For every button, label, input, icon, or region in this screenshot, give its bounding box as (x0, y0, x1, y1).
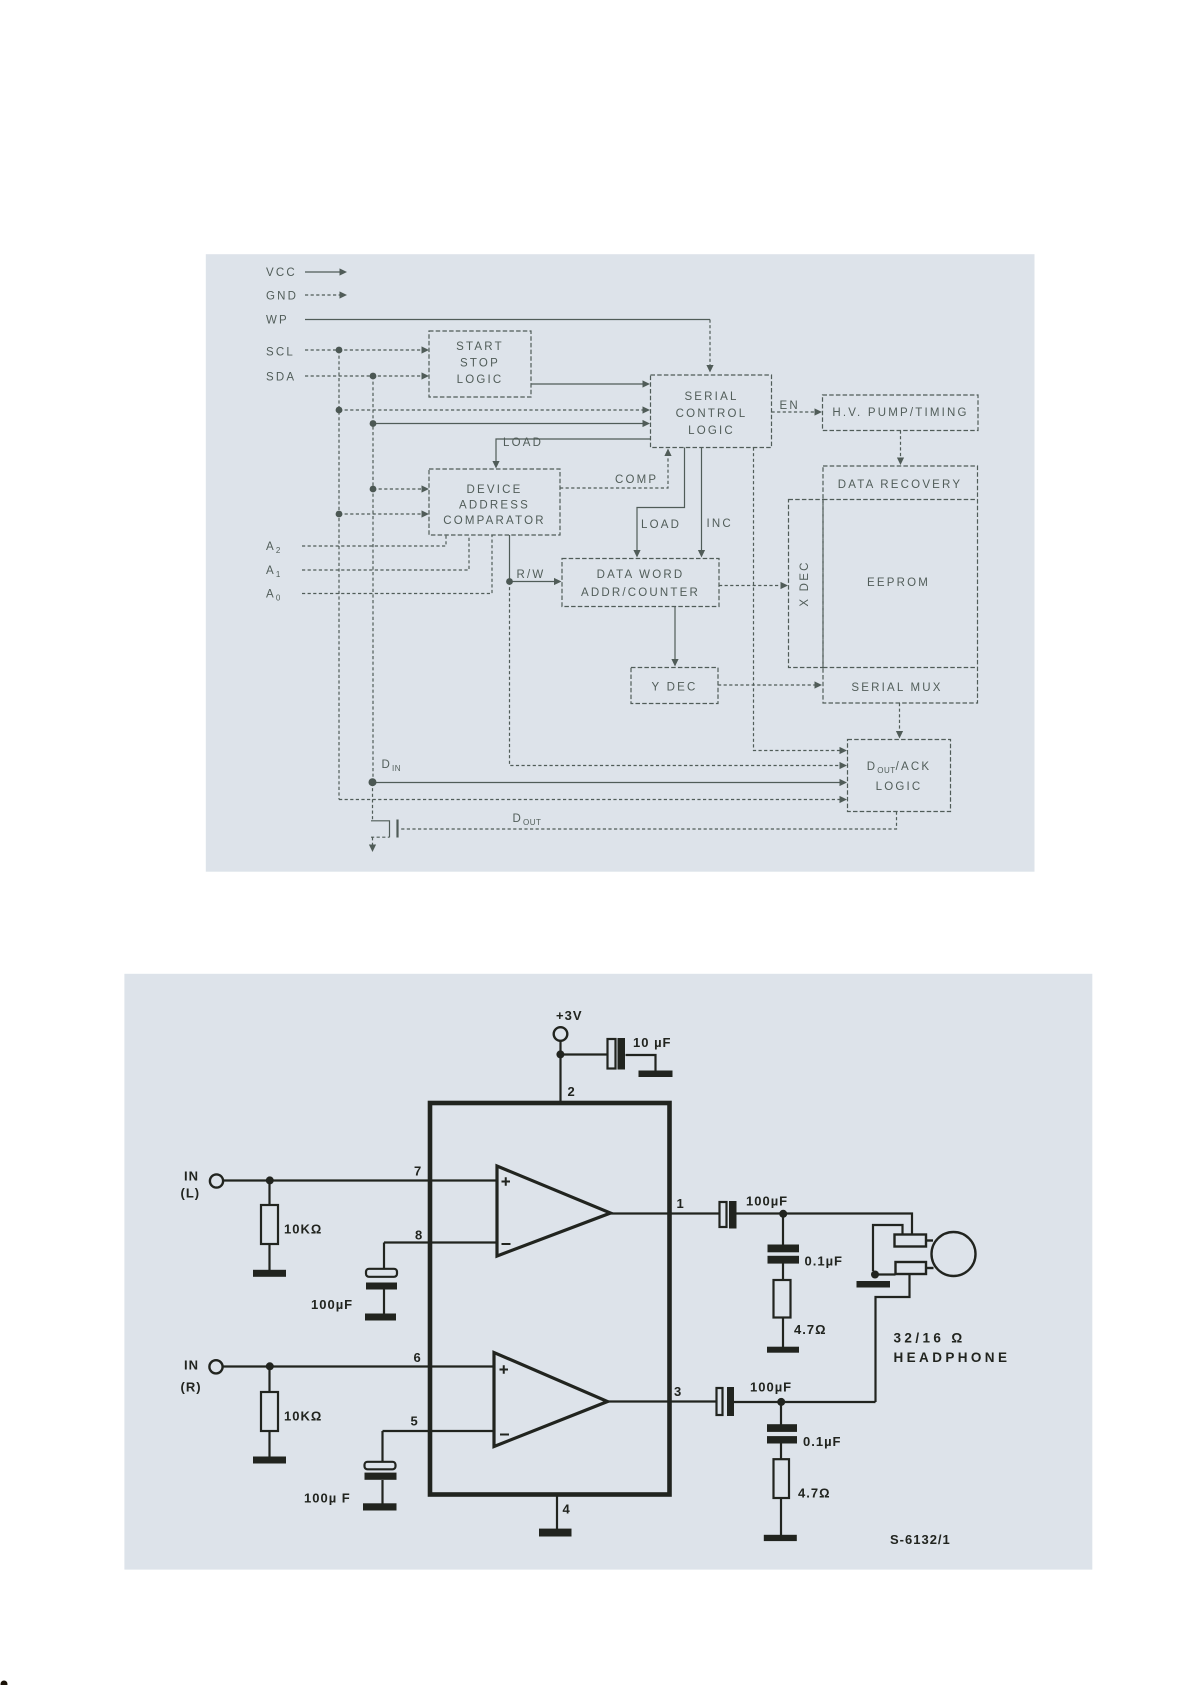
svg-text:10KΩ: 10KΩ (284, 1409, 322, 1424)
svg-text:H.V. PUMP/TIMING: H.V. PUMP/TIMING (832, 407, 968, 419)
svg-text:4.7Ω: 4.7Ω (798, 1486, 831, 1501)
svg-text:GND: GND (266, 291, 298, 303)
svg-text:32/16 Ω: 32/16 Ω (894, 1331, 966, 1346)
svg-text:(L): (L) (181, 1186, 201, 1201)
svg-text:EN: EN (780, 400, 800, 412)
svg-text:7: 7 (414, 1164, 422, 1179)
svg-text:5: 5 (411, 1414, 419, 1429)
svg-text:3: 3 (674, 1384, 682, 1399)
svg-text:Y DEC: Y DEC (652, 682, 698, 694)
svg-text:0.1µF: 0.1µF (805, 1254, 844, 1269)
svg-text:DOUT/ACK: DOUT/ACK (867, 761, 932, 775)
svg-text:EEPROM: EEPROM (867, 577, 930, 589)
svg-text:LOAD: LOAD (641, 519, 681, 531)
svg-text:4.7Ω: 4.7Ω (794, 1322, 827, 1337)
svg-text:10KΩ: 10KΩ (284, 1222, 322, 1237)
svg-text:LOGIC: LOGIC (457, 374, 504, 386)
svg-text:100µF: 100µF (750, 1380, 792, 1395)
svg-text:DATA WORD: DATA WORD (597, 569, 685, 581)
svg-text:HEADPHONE: HEADPHONE (894, 1350, 1011, 1365)
svg-text:COMPARATOR: COMPARATOR (443, 515, 546, 527)
svg-text:X DEC: X DEC (799, 560, 811, 606)
svg-text:LOAD: LOAD (503, 437, 543, 449)
svg-text:IN: IN (184, 1169, 199, 1184)
svg-text:100µ F: 100µ F (304, 1491, 351, 1506)
svg-text:R/W: R/W (517, 569, 546, 581)
svg-text:(R): (R) (181, 1380, 202, 1395)
svg-text:ADDR/COUNTER: ADDR/COUNTER (581, 587, 700, 599)
svg-text:SDA: SDA (266, 372, 296, 384)
svg-text:CONTROL: CONTROL (676, 408, 748, 420)
svg-text:WP: WP (266, 315, 289, 327)
svg-text:DEVICE: DEVICE (466, 484, 522, 496)
svg-text:VCC: VCC (266, 267, 297, 279)
svg-text:STOP: STOP (460, 358, 500, 370)
svg-text:LOGIC: LOGIC (876, 781, 923, 793)
svg-text:+3V: +3V (556, 1008, 583, 1023)
svg-text:0.1µF: 0.1µF (803, 1434, 842, 1449)
svg-text:DATA RECOVERY: DATA RECOVERY (838, 479, 962, 491)
svg-text:6: 6 (414, 1350, 422, 1365)
svg-text:100µF: 100µF (746, 1194, 788, 1209)
svg-text:1: 1 (677, 1196, 685, 1211)
svg-text:S-6132/1: S-6132/1 (890, 1532, 951, 1547)
svg-text:IN: IN (184, 1358, 199, 1373)
svg-text:SERIAL MUX: SERIAL MUX (851, 682, 942, 694)
svg-text:LOGIC: LOGIC (688, 425, 735, 437)
svg-text:ADDRESS: ADDRESS (459, 500, 530, 512)
svg-text:SERIAL: SERIAL (684, 391, 738, 403)
svg-text:COMP: COMP (615, 474, 658, 486)
svg-text:4: 4 (563, 1502, 571, 1517)
svg-text:8: 8 (415, 1228, 423, 1243)
svg-text:INC: INC (707, 518, 733, 530)
svg-text:SCL: SCL (266, 347, 295, 359)
svg-text:100µF: 100µF (311, 1297, 353, 1312)
svg-text:2: 2 (568, 1084, 576, 1099)
svg-text:10 µF: 10 µF (633, 1035, 672, 1050)
svg-text:START: START (456, 341, 504, 353)
